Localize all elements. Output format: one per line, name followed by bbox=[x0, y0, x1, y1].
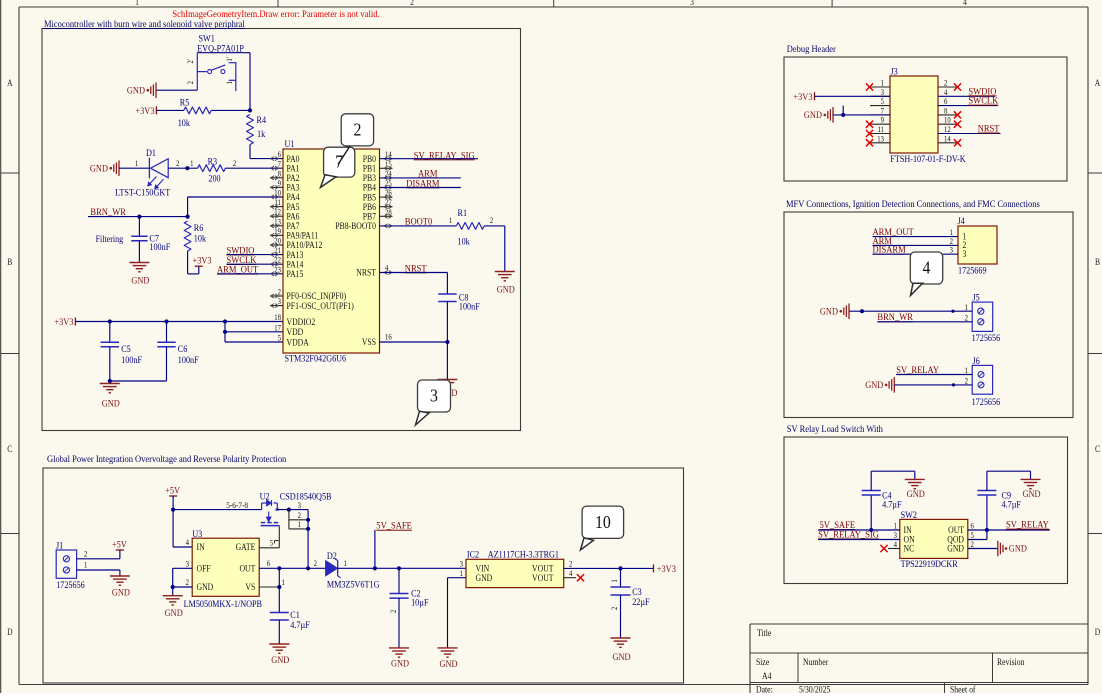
svg-text:GND: GND bbox=[865, 380, 884, 391]
svg-text:4: 4 bbox=[186, 537, 190, 547]
svg-text:GND: GND bbox=[804, 110, 823, 121]
svg-text:3: 3 bbox=[881, 87, 885, 97]
svg-text:SV_RELAY: SV_RELAY bbox=[896, 364, 939, 375]
svg-text:+3V3: +3V3 bbox=[657, 563, 677, 574]
svg-text:8: 8 bbox=[278, 169, 282, 179]
svg-text:GATE: GATE bbox=[236, 542, 256, 553]
svg-text:R4: R4 bbox=[257, 114, 267, 125]
svg-text:B: B bbox=[1095, 257, 1100, 267]
svg-text:Size: Size bbox=[756, 656, 770, 667]
svg-text:11: 11 bbox=[878, 124, 885, 134]
svg-text:LTST-C150GKT: LTST-C150GKT bbox=[115, 187, 171, 198]
svg-text:14: 14 bbox=[944, 134, 951, 144]
svg-text:1725656: 1725656 bbox=[972, 396, 1001, 407]
svg-text:GND: GND bbox=[439, 658, 458, 669]
svg-text:6: 6 bbox=[267, 558, 271, 568]
svg-text:1: 1 bbox=[135, 158, 139, 168]
svg-text:1: 1 bbox=[610, 579, 619, 583]
svg-text:4.7µF: 4.7µF bbox=[290, 619, 310, 630]
svg-text:GND: GND bbox=[90, 163, 109, 174]
svg-text:NC: NC bbox=[904, 543, 915, 554]
svg-text:A: A bbox=[7, 78, 12, 88]
svg-text:Global Power Integration Overv: Global Power Integration Overvoltage and… bbox=[47, 454, 287, 465]
svg-text:VS: VS bbox=[245, 582, 255, 593]
svg-text:MFV Connections, Ignition Dete: MFV Connections, Ignition Detection Conn… bbox=[786, 199, 1040, 210]
svg-text:OUT: OUT bbox=[239, 563, 256, 574]
svg-text:12: 12 bbox=[944, 124, 951, 134]
svg-text:MM3Z5V6T1G: MM3Z5V6T1G bbox=[327, 579, 380, 590]
svg-text:2: 2 bbox=[389, 609, 398, 613]
svg-text:GND: GND bbox=[1009, 543, 1028, 554]
svg-text:2: 2 bbox=[233, 158, 237, 168]
svg-text:GND: GND bbox=[127, 85, 146, 96]
svg-text:BOOT0: BOOT0 bbox=[405, 216, 433, 227]
svg-text:10k: 10k bbox=[178, 117, 191, 128]
svg-text:16: 16 bbox=[385, 332, 392, 342]
svg-text:7: 7 bbox=[278, 159, 282, 169]
svg-text:C: C bbox=[1095, 444, 1100, 454]
svg-text:1k: 1k bbox=[257, 128, 266, 139]
svg-text:GND: GND bbox=[476, 572, 493, 583]
svg-text:100nF: 100nF bbox=[121, 354, 142, 365]
svg-text:B: B bbox=[7, 257, 12, 267]
svg-text:2: 2 bbox=[971, 539, 975, 549]
svg-text:5/30/2025: 5/30/2025 bbox=[799, 684, 830, 693]
svg-text:13: 13 bbox=[877, 134, 884, 144]
svg-text:4.7µF: 4.7µF bbox=[882, 499, 902, 510]
svg-text:4: 4 bbox=[569, 569, 573, 579]
svg-text:J5: J5 bbox=[973, 292, 981, 303]
svg-text:GND: GND bbox=[131, 275, 150, 286]
svg-text:+3V3: +3V3 bbox=[135, 106, 155, 117]
svg-text:R6: R6 bbox=[194, 222, 204, 233]
svg-text:PA15: PA15 bbox=[287, 268, 304, 279]
svg-text:10k: 10k bbox=[194, 233, 207, 244]
svg-text:2: 2 bbox=[965, 313, 969, 323]
svg-text:LM5050MKX-1/NOPB: LM5050MKX-1/NOPB bbox=[184, 598, 262, 609]
svg-text:ARM: ARM bbox=[418, 168, 437, 179]
svg-text:3: 3 bbox=[186, 559, 190, 569]
svg-text:2: 2 bbox=[278, 287, 282, 297]
svg-text:GND: GND bbox=[102, 398, 121, 409]
svg-text:VDDA: VDDA bbox=[287, 337, 310, 348]
svg-text:2: 2 bbox=[944, 78, 948, 88]
svg-text:1725656: 1725656 bbox=[56, 579, 85, 590]
svg-text:3: 3 bbox=[430, 386, 438, 406]
svg-text:DISARM: DISARM bbox=[873, 244, 906, 255]
svg-text:10k: 10k bbox=[458, 236, 471, 247]
svg-text:1: 1 bbox=[190, 158, 194, 168]
svg-text:4: 4 bbox=[944, 87, 948, 97]
svg-text:1: 1 bbox=[225, 81, 234, 85]
svg-text:CSD18540Q5B: CSD18540Q5B bbox=[280, 491, 332, 502]
svg-text:U3: U3 bbox=[192, 528, 202, 539]
svg-text:GND: GND bbox=[1022, 489, 1041, 500]
svg-text:Micocontroller with burn wire: Micocontroller with burn wire and soleno… bbox=[44, 19, 245, 30]
svg-text:1: 1 bbox=[344, 558, 348, 568]
svg-text:1: 1 bbox=[965, 302, 969, 312]
svg-text:D: D bbox=[7, 627, 12, 637]
svg-text:U2: U2 bbox=[260, 491, 270, 502]
svg-text:2: 2 bbox=[314, 558, 318, 568]
svg-text:1: 1 bbox=[460, 569, 464, 579]
svg-text:VDDIO2: VDDIO2 bbox=[287, 316, 316, 327]
svg-text:IC2: IC2 bbox=[467, 549, 479, 560]
svg-text:DISARM: DISARM bbox=[406, 178, 439, 189]
svg-text:1: 1 bbox=[84, 560, 88, 570]
svg-text:PB8-BOOT0: PB8-BOOT0 bbox=[335, 220, 376, 231]
svg-text:J1: J1 bbox=[56, 540, 63, 551]
svg-text:GND: GND bbox=[907, 489, 926, 500]
svg-text:1: 1 bbox=[965, 365, 969, 375]
svg-text:GND: GND bbox=[391, 658, 410, 669]
svg-text:SW2: SW2 bbox=[901, 509, 917, 520]
svg-text:100nF: 100nF bbox=[149, 241, 170, 252]
svg-text:8: 8 bbox=[944, 106, 948, 116]
svg-text:3: 3 bbox=[690, 0, 694, 7]
svg-text:OFF: OFF bbox=[197, 563, 211, 574]
svg-text:3: 3 bbox=[298, 501, 302, 511]
svg-text:3: 3 bbox=[460, 559, 464, 569]
svg-text:+3V3: +3V3 bbox=[793, 92, 813, 103]
svg-text:Filtering: Filtering bbox=[96, 233, 124, 244]
svg-text:3: 3 bbox=[950, 245, 954, 255]
svg-text:C6: C6 bbox=[178, 343, 188, 354]
svg-text:VDD: VDD bbox=[287, 326, 304, 337]
svg-text:1: 1 bbox=[298, 519, 302, 529]
svg-text:SchImageGeometryItem.Draw erro: SchImageGeometryItem.Draw error: Paramet… bbox=[172, 9, 379, 19]
svg-text:BRN_WR: BRN_WR bbox=[877, 312, 913, 323]
svg-text:Date:: Date: bbox=[756, 684, 773, 693]
svg-text:200: 200 bbox=[208, 173, 221, 184]
svg-text:SV_RELAY: SV_RELAY bbox=[1006, 519, 1049, 530]
svg-text:1: 1 bbox=[282, 577, 286, 587]
svg-text:10: 10 bbox=[944, 115, 951, 125]
svg-text:GND: GND bbox=[820, 306, 839, 317]
svg-text:PF1-OSC_OUT(PF1): PF1-OSC_OUT(PF1) bbox=[287, 300, 354, 311]
svg-text:5: 5 bbox=[270, 538, 274, 548]
svg-text:Title: Title bbox=[757, 627, 772, 638]
svg-text:TPS22919DCKR: TPS22919DCKR bbox=[901, 558, 958, 569]
svg-text:1': 1' bbox=[225, 57, 234, 61]
svg-text:2: 2 bbox=[569, 559, 573, 569]
svg-text:STM32F042G6U6: STM32F042G6U6 bbox=[285, 353, 347, 364]
svg-text:9: 9 bbox=[278, 178, 282, 188]
svg-text:R5: R5 bbox=[180, 97, 190, 108]
svg-text:J3: J3 bbox=[891, 66, 899, 77]
svg-text:J4: J4 bbox=[958, 215, 966, 226]
svg-text:A: A bbox=[1095, 78, 1100, 88]
svg-text:3: 3 bbox=[278, 297, 282, 307]
svg-text:C5: C5 bbox=[121, 343, 131, 354]
svg-text:GND: GND bbox=[612, 651, 631, 662]
svg-text:GND: GND bbox=[165, 608, 184, 619]
svg-text:1: 1 bbox=[881, 78, 885, 88]
svg-text:Sheet of: Sheet of bbox=[950, 684, 976, 693]
svg-text:5: 5 bbox=[881, 97, 885, 107]
svg-text:2: 2 bbox=[610, 606, 619, 610]
svg-text:4.7µF: 4.7µF bbox=[1002, 499, 1022, 510]
svg-text:+3V3: +3V3 bbox=[193, 255, 213, 266]
svg-text:+3V3: +3V3 bbox=[54, 317, 74, 328]
svg-text:VSS: VSS bbox=[362, 337, 376, 348]
svg-text:2: 2 bbox=[410, 0, 414, 7]
svg-text:Debug Header: Debug Header bbox=[787, 44, 836, 55]
svg-text:100nF: 100nF bbox=[178, 354, 199, 365]
svg-text:6: 6 bbox=[278, 150, 282, 160]
svg-text:2: 2 bbox=[84, 549, 88, 559]
svg-text:VOUT: VOUT bbox=[532, 572, 554, 583]
svg-text:FTSH-107-01-F-DV-K: FTSH-107-01-F-DV-K bbox=[890, 153, 966, 164]
svg-text:1: 1 bbox=[135, 0, 139, 7]
svg-text:10µF: 10µF bbox=[411, 597, 428, 608]
svg-text:C: C bbox=[7, 444, 12, 454]
svg-text:+5V: +5V bbox=[112, 539, 127, 550]
svg-text:4: 4 bbox=[894, 539, 898, 549]
svg-text:EVQ-P7A01P: EVQ-P7A01P bbox=[197, 43, 244, 54]
svg-text:10: 10 bbox=[595, 512, 611, 532]
svg-text:J6: J6 bbox=[973, 355, 981, 366]
svg-text:1725669: 1725669 bbox=[958, 265, 987, 276]
svg-text:GND: GND bbox=[112, 587, 131, 598]
svg-text:5-6-7-8: 5-6-7-8 bbox=[226, 500, 248, 510]
svg-text:2: 2 bbox=[186, 577, 190, 587]
svg-text:3: 3 bbox=[963, 249, 967, 259]
svg-text:22µF: 22µF bbox=[632, 597, 649, 608]
svg-text:A4: A4 bbox=[762, 670, 772, 681]
svg-text:GND: GND bbox=[497, 284, 516, 295]
svg-text:SV Relay Load Switch With: SV Relay Load Switch With bbox=[787, 424, 884, 435]
svg-text:1: 1 bbox=[449, 215, 453, 225]
svg-text:100nF: 100nF bbox=[459, 301, 480, 312]
svg-text:17: 17 bbox=[274, 323, 281, 333]
svg-text:GND: GND bbox=[197, 582, 214, 593]
svg-text:Number: Number bbox=[803, 656, 828, 667]
svg-text:6: 6 bbox=[944, 97, 948, 107]
svg-text:D1: D1 bbox=[146, 147, 156, 158]
svg-text:R1: R1 bbox=[458, 207, 468, 218]
svg-text:IN: IN bbox=[197, 542, 205, 553]
svg-text:BRN_WR: BRN_WR bbox=[90, 207, 126, 218]
svg-text:NRST: NRST bbox=[978, 123, 1000, 134]
svg-text:5: 5 bbox=[278, 333, 282, 343]
svg-text:NRST: NRST bbox=[405, 263, 427, 274]
svg-text:2: 2 bbox=[176, 158, 180, 168]
svg-text:5V_SAFE: 5V_SAFE bbox=[376, 520, 412, 531]
svg-text:6: 6 bbox=[971, 521, 975, 531]
svg-text:7: 7 bbox=[881, 106, 885, 116]
svg-text:2: 2 bbox=[965, 376, 969, 386]
svg-text:1725656: 1725656 bbox=[972, 333, 1001, 344]
svg-text:GND: GND bbox=[271, 655, 290, 666]
svg-text:ARM_OUT: ARM_OUT bbox=[217, 264, 259, 275]
svg-text:+5V: +5V bbox=[165, 485, 180, 496]
svg-text:2: 2 bbox=[186, 81, 195, 85]
svg-text:SWCLK: SWCLK bbox=[968, 95, 998, 106]
svg-text:4: 4 bbox=[923, 258, 931, 278]
svg-text:Revision: Revision bbox=[997, 656, 1025, 667]
svg-text:2': 2' bbox=[186, 59, 195, 63]
svg-text:D: D bbox=[1095, 627, 1100, 637]
svg-text:9: 9 bbox=[881, 115, 885, 125]
svg-text:NRST: NRST bbox=[356, 267, 376, 278]
svg-text:GND: GND bbox=[947, 543, 964, 554]
svg-text:AZ1117CH-3.3TRG1: AZ1117CH-3.3TRG1 bbox=[488, 549, 559, 560]
svg-text:18: 18 bbox=[274, 313, 281, 323]
svg-text:2: 2 bbox=[353, 120, 361, 140]
svg-text:1: 1 bbox=[894, 521, 898, 531]
svg-text:2: 2 bbox=[490, 215, 494, 225]
svg-text:U1: U1 bbox=[285, 138, 295, 149]
